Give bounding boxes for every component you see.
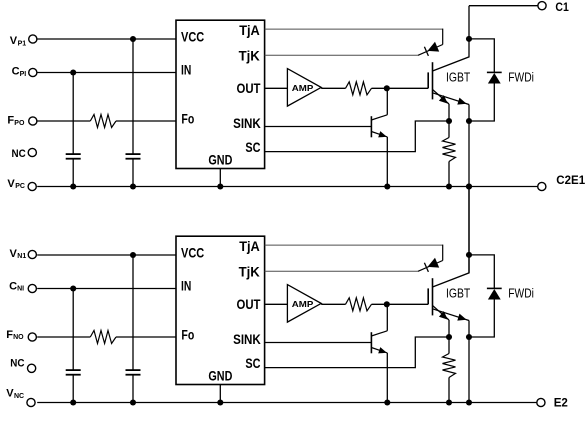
wire bus B2 upper	[132, 255, 134, 370]
wire gate resistor to gate 1	[372, 87, 429, 89]
wire C1 line	[469, 5, 538, 7]
capacitor C2b	[126, 370, 141, 375]
terminal C2E1	[538, 182, 546, 190]
svg-text:NO: NO	[13, 334, 24, 341]
label E2	[554, 396, 568, 410]
pin label SINK U1	[233, 116, 261, 131]
svg-text:TjA: TjA	[239, 23, 260, 38]
svg-text:SINK: SINK	[233, 332, 261, 347]
node main emitter FWDi junction 1	[466, 118, 472, 124]
svg-text:V: V	[7, 178, 15, 190]
wire SINK pin to base Q2	[265, 342, 372, 344]
node main emitter rail junction 1	[466, 183, 472, 189]
pin label SC U2	[245, 356, 260, 371]
wire OUT pin to amp 2	[265, 303, 288, 305]
label IGBT 1	[446, 69, 470, 84]
free-wheel diode FWDi2 body	[488, 289, 501, 300]
node sense resistor rail junction 2	[446, 399, 452, 405]
temperature diode D1a cathode bar	[424, 47, 428, 56]
svg-text:E2: E2	[554, 396, 568, 410]
svg-text:Fo: Fo	[181, 327, 194, 342]
IGBT Q2i main emitter	[433, 309, 470, 321]
svg-text:SC: SC	[245, 140, 260, 155]
label NC upper	[12, 148, 26, 160]
node Q1 emitter rail junction	[384, 183, 390, 189]
node OUT junction 2	[384, 301, 390, 307]
transistor Q1 emitter	[371, 132, 387, 137]
IGBT Q2i gate bar	[427, 288, 429, 304]
node sense junction 2	[446, 334, 452, 340]
driver IC U1	[176, 20, 265, 168]
label FNO	[6, 329, 24, 341]
driver IC U2	[176, 236, 265, 384]
pin label TjA U1	[239, 23, 260, 38]
wire bus A2 upper	[72, 289, 74, 371]
free-wheel diode FWDi1 cathode bar	[487, 71, 502, 73]
node sense resistor rail junction 1	[446, 183, 452, 189]
svg-text:NC: NC	[10, 357, 24, 369]
label VNC	[6, 388, 24, 400]
capacitor C2a	[66, 370, 81, 375]
wire amp to gate resistor 2	[321, 303, 345, 305]
temperature diode D1a anode arrow	[428, 42, 440, 52]
terminal FPO	[29, 117, 37, 125]
node bus B2 top junction	[130, 252, 136, 258]
resistor R2s (sense)	[443, 354, 456, 378]
svg-text:IN: IN	[181, 279, 191, 294]
terminal FNO	[28, 333, 36, 341]
resistor R1s (sense)	[443, 138, 456, 162]
wire TjA pin U2	[265, 244, 443, 246]
label FWDi 2	[508, 285, 534, 300]
wire TjK pin U1	[265, 54, 418, 56]
wire OUT pin to amp 1	[265, 87, 288, 89]
wire C2E1 rail	[37, 186, 538, 188]
free-wheel diode FWDi2 cathode bar	[487, 287, 502, 289]
svg-text:IN: IN	[181, 63, 191, 78]
node collector junction 2	[466, 252, 472, 258]
wire C2E1 to lower IGBT collector	[468, 187, 470, 273]
svg-text:VCC: VCC	[181, 246, 204, 261]
svg-text:TjK: TjK	[239, 48, 260, 63]
svg-text:C: C	[12, 66, 20, 78]
pin label IN U1	[181, 63, 191, 78]
svg-text:GND: GND	[208, 368, 232, 383]
temperature diode D2a anode arrow	[428, 258, 440, 268]
temperature diode D2a cathode bar	[424, 263, 428, 272]
wire GND pin U2 to rail	[219, 385, 221, 403]
label IGBT 2	[446, 285, 470, 300]
wire resistor R1a to Fo pin	[116, 120, 176, 122]
node collector junction 1	[466, 36, 472, 42]
label VN1	[10, 248, 27, 260]
label C2E1	[556, 173, 585, 187]
svg-text:FWDi: FWDi	[508, 285, 534, 300]
IGBT Q2i sense emitter	[433, 306, 450, 321]
svg-text:C2E1: C2E1	[556, 173, 585, 187]
resistor R1a (Fo filter)	[90, 115, 116, 128]
resistor R1g (gate)	[346, 82, 372, 95]
label VP1	[10, 35, 26, 47]
wire GND pin U1 to rail	[219, 169, 221, 187]
pin label OUT U2	[237, 297, 262, 312]
svg-text:AMP: AMP	[292, 84, 314, 93]
wire bus A1 lower	[72, 159, 74, 187]
pin label VCC U2	[181, 246, 204, 261]
svg-text:C1: C1	[555, 0, 569, 14]
svg-text:Fo: Fo	[181, 111, 194, 126]
pin label SINK U2	[233, 332, 261, 347]
capacitor C1a	[66, 154, 81, 159]
terminal CNI	[28, 284, 36, 292]
wire Q1 emitter to rail	[386, 137, 388, 187]
wire TjA corner drop 2	[442, 245, 444, 261]
svg-text:OUT: OUT	[237, 297, 262, 312]
terminal CPI	[29, 68, 37, 76]
svg-text:N1: N1	[17, 253, 26, 260]
svg-text:PI: PI	[20, 71, 27, 78]
transistor Q2 emitter	[371, 348, 387, 353]
svg-text:GND: GND	[208, 152, 232, 167]
node C2E1 rail junction	[466, 183, 472, 189]
wire CNI to IN pin	[37, 288, 176, 290]
svg-text:VCC: VCC	[181, 30, 204, 45]
svg-text:C: C	[9, 280, 17, 292]
wire TjA corner drop 1	[442, 29, 444, 45]
svg-text:NI: NI	[17, 286, 24, 293]
node Q2 emitter rail junction	[384, 399, 390, 405]
svg-text:FWDi: FWDi	[508, 69, 534, 84]
IGBT Q2i main emitter arrow	[457, 314, 466, 321]
svg-text:V: V	[6, 388, 14, 400]
wire sense emitter down 1	[448, 104, 450, 138]
wire FWDi top branch 1	[469, 39, 494, 73]
wire SC pin 2	[265, 337, 449, 368]
terminal C1	[538, 2, 546, 10]
svg-text:NC: NC	[14, 393, 24, 400]
svg-text:IGBT: IGBT	[446, 285, 470, 300]
node main emitter FWDi junction 2	[466, 334, 472, 340]
wire SC pin 1	[265, 121, 449, 152]
label C1	[555, 0, 569, 14]
svg-text:TjA: TjA	[239, 239, 260, 254]
wire FPO to resistor R1a	[37, 120, 90, 122]
svg-text:SINK: SINK	[233, 116, 261, 131]
label FPO	[7, 115, 25, 127]
label NC lower	[10, 357, 24, 369]
transistor Q2 collector	[371, 304, 387, 336]
pin label IN U2	[181, 279, 191, 294]
svg-text:V: V	[10, 248, 18, 260]
wire VN1 supply to VCC pin	[37, 254, 176, 256]
terminal VP1	[29, 35, 37, 43]
pin label TjK U2	[239, 264, 260, 279]
transistor Q1 collector	[371, 88, 387, 120]
wire bus B1 upper	[132, 39, 134, 154]
wire bus B2 lower	[132, 375, 134, 403]
wire temp diode diagonal 1	[418, 45, 443, 56]
IGBT Q1i sense emitter arrow	[439, 95, 448, 104]
svg-text:V: V	[10, 35, 18, 47]
svg-text:P1: P1	[18, 41, 27, 48]
transistor Q1 emitter arrow	[378, 131, 387, 137]
node bus B2 bottom junction	[130, 399, 136, 405]
IGBT Q1i gate bar	[427, 72, 429, 88]
pin label VCC U1	[181, 30, 204, 45]
wire bus A2 lower	[72, 375, 74, 403]
svg-text:PO: PO	[14, 120, 25, 127]
label CPI	[12, 66, 27, 78]
transistor Q2 base bar	[370, 332, 372, 353]
node bus A1 bottom junction	[70, 183, 76, 189]
capacitor C1b	[126, 154, 141, 159]
wire VP1 supply to VCC pin	[37, 38, 176, 40]
IGBT Q1i body bar	[432, 62, 434, 99]
wire FWDi bottom branch 1	[469, 84, 494, 122]
node GND junction U2	[217, 399, 223, 405]
terminal NC upper	[28, 148, 36, 156]
pin label GND U2	[208, 368, 232, 383]
pin label SC U1	[245, 140, 260, 155]
pin label Fo U1	[181, 111, 194, 126]
node bus A2 top junction	[70, 285, 76, 291]
node sense junction 1	[446, 118, 452, 124]
terminal NC lower	[28, 364, 36, 372]
wire sense resistor to rail 1	[448, 162, 450, 187]
svg-text:AMP: AMP	[292, 300, 314, 309]
pin label TjK U1	[239, 48, 260, 63]
svg-text:NC: NC	[12, 148, 26, 160]
wire bus B1 lower	[132, 159, 134, 187]
wire amp to gate resistor 1	[321, 87, 345, 89]
pin label OUT U1	[237, 81, 262, 96]
IGBT Q1i main emitter arrow	[457, 98, 466, 105]
svg-text:PC: PC	[15, 183, 25, 190]
node main emitter rail junction 2	[466, 399, 472, 405]
wire gate resistor to gate 2	[372, 303, 429, 305]
node GND junction U1	[217, 183, 223, 189]
svg-text:SC: SC	[245, 356, 260, 371]
op-amp buffer AMP2	[287, 285, 321, 323]
resistor R2g (gate)	[346, 298, 372, 311]
wire FWDi top branch 2	[469, 255, 494, 289]
transistor Q2 emitter arrow	[378, 347, 387, 353]
terminal VN1	[28, 250, 36, 258]
wire sense resistor to rail 2	[448, 378, 450, 403]
wire FNO to resistor R2a	[37, 336, 90, 338]
wire SINK pin to base Q1	[265, 126, 372, 128]
IGBT Q2i collector lead	[433, 187, 470, 287]
IGBT Q1i main emitter	[433, 93, 470, 105]
wire main emitter down 1	[468, 105, 470, 187]
pin label TjA U2	[239, 239, 260, 254]
terminal VPC	[28, 182, 36, 190]
IGBT Q1i collector lead	[433, 6, 470, 71]
free-wheel diode FWDi1 body	[488, 73, 501, 84]
node bus A1 top junction	[70, 69, 76, 75]
label FWDi 1	[508, 69, 534, 84]
IGBT Q1i sense emitter	[433, 90, 450, 105]
node bus B1 top junction	[130, 36, 136, 42]
label VPC	[7, 178, 25, 190]
node bus B1 bottom junction	[130, 183, 136, 189]
wire TjK pin U2	[265, 270, 418, 272]
op-amp buffer AMP1	[287, 69, 321, 107]
pin label GND U1	[208, 152, 232, 167]
wire main emitter down 2	[468, 321, 470, 403]
wire FWDi bottom branch 2	[469, 300, 494, 338]
wire temp diode diagonal 2	[418, 261, 443, 272]
terminal E2	[537, 398, 545, 406]
svg-text:OUT: OUT	[237, 81, 262, 96]
node bus A2 bottom junction	[70, 399, 76, 405]
wire CPI to IN pin	[37, 72, 176, 74]
wire resistor R2a to Fo pin	[116, 336, 176, 338]
IGBT Q2i sense emitter arrow	[439, 311, 448, 320]
terminal VNC	[27, 398, 35, 406]
svg-text:IGBT: IGBT	[446, 69, 470, 84]
transistor Q1 base bar	[370, 116, 372, 137]
wire bus A1 upper	[72, 73, 74, 155]
label CNI	[9, 280, 24, 292]
pin label Fo U2	[181, 327, 194, 342]
resistor R2a (Fo filter)	[90, 331, 116, 344]
wire sense emitter down 2	[448, 320, 450, 354]
node OUT junction 1	[384, 85, 390, 91]
wire E2 rail	[37, 402, 537, 404]
IGBT Q2i body bar	[432, 278, 434, 315]
wire Q2 emitter to rail	[386, 353, 388, 403]
svg-text:TjK: TjK	[239, 264, 260, 279]
wire TjA pin U1	[265, 28, 443, 30]
